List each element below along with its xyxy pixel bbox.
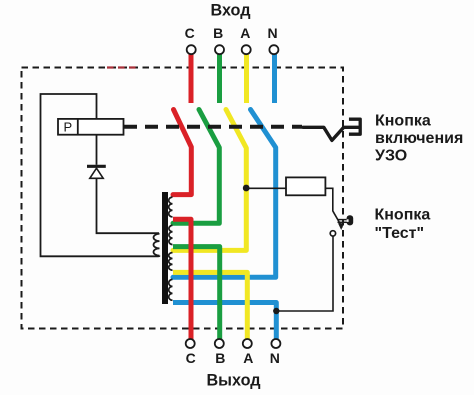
contact blade C + wire to transformer bbox=[173, 110, 191, 195]
relay (polarized) box bbox=[58, 119, 124, 135]
wire tap to resistor bbox=[246, 187, 286, 189]
test button knob bbox=[338, 219, 350, 221]
wire N blue top stub bbox=[272, 54, 277, 104]
wire test contact to N bbox=[278, 237, 334, 312]
test switch fixed contact bbox=[330, 231, 335, 236]
wire C red top stub bbox=[189, 54, 194, 104]
input terminal B bbox=[215, 45, 224, 54]
transformer core bbox=[162, 192, 168, 304]
diode VD1 bbox=[87, 165, 106, 168]
wire relay to diode bbox=[96, 135, 98, 165]
svg-text:P: P bbox=[63, 120, 72, 135]
svg-text:Кнопка: Кнопка bbox=[375, 113, 431, 130]
svg-text:включения: включения bbox=[375, 130, 463, 147]
wire C red bottom band to output bbox=[173, 219, 191, 339]
output terminal B bbox=[215, 339, 224, 348]
wire N blue bottom band to output bbox=[173, 303, 276, 340]
contact blade B + wire to transformer bbox=[173, 110, 219, 224]
svg-text:B: B bbox=[213, 25, 223, 41]
svg-text:N: N bbox=[270, 350, 280, 366]
wire B green bottom band to output bbox=[173, 247, 220, 339]
primary winding phase B bbox=[169, 225, 173, 244]
svg-text:Вход: Вход bbox=[210, 2, 250, 20]
node: test resistor tap on phase A bbox=[243, 185, 250, 192]
output terminal N bbox=[271, 339, 280, 348]
svg-text:Кнопка: Кнопка bbox=[375, 207, 431, 224]
contact blade A + wire to transformer bbox=[173, 110, 246, 251]
output terminal A bbox=[243, 339, 252, 348]
primary winding phase C bbox=[169, 197, 173, 217]
input terminal N bbox=[269, 45, 278, 54]
svg-text:C: C bbox=[185, 25, 195, 41]
wire A yellow top stub bbox=[244, 54, 249, 104]
svg-text:B: B bbox=[215, 350, 225, 366]
wire secondary winding to relay loop bbox=[41, 94, 160, 256]
svg-text:C: C bbox=[186, 350, 196, 366]
wire B green top stub bbox=[217, 54, 222, 104]
wire diode to secondary winding bbox=[97, 178, 160, 233]
input terminal A bbox=[242, 45, 251, 54]
wire A yellow bottom band to output bbox=[173, 272, 247, 339]
svg-text:N: N bbox=[268, 25, 278, 41]
output terminal C bbox=[186, 339, 195, 348]
svg-text:A: A bbox=[240, 25, 250, 41]
RCD housing dashed border bbox=[22, 68, 344, 329]
input terminal C bbox=[187, 45, 196, 54]
primary winding phase A bbox=[169, 253, 173, 271]
test switch blade bbox=[333, 211, 342, 227]
contact blade N + wire to transformer bbox=[173, 110, 276, 278]
svg-text:"Тест": "Тест" bbox=[375, 225, 425, 242]
svg-text:Выход: Выход bbox=[206, 372, 260, 390]
primary winding phase N bbox=[169, 279, 173, 300]
svg-text:A: A bbox=[243, 350, 253, 366]
svg-text:УЗО: УЗО bbox=[375, 148, 407, 165]
mechanical linkage dashed bbox=[124, 125, 302, 129]
node: test wire junction on N bbox=[273, 308, 279, 314]
red dash artifact on top border bbox=[107, 66, 137, 68]
wire resistor to test switch bbox=[325, 188, 332, 211]
secondary winding bbox=[153, 234, 159, 256]
resistor R1 bbox=[286, 177, 325, 195]
RCD enable button symbol bbox=[303, 127, 359, 140]
